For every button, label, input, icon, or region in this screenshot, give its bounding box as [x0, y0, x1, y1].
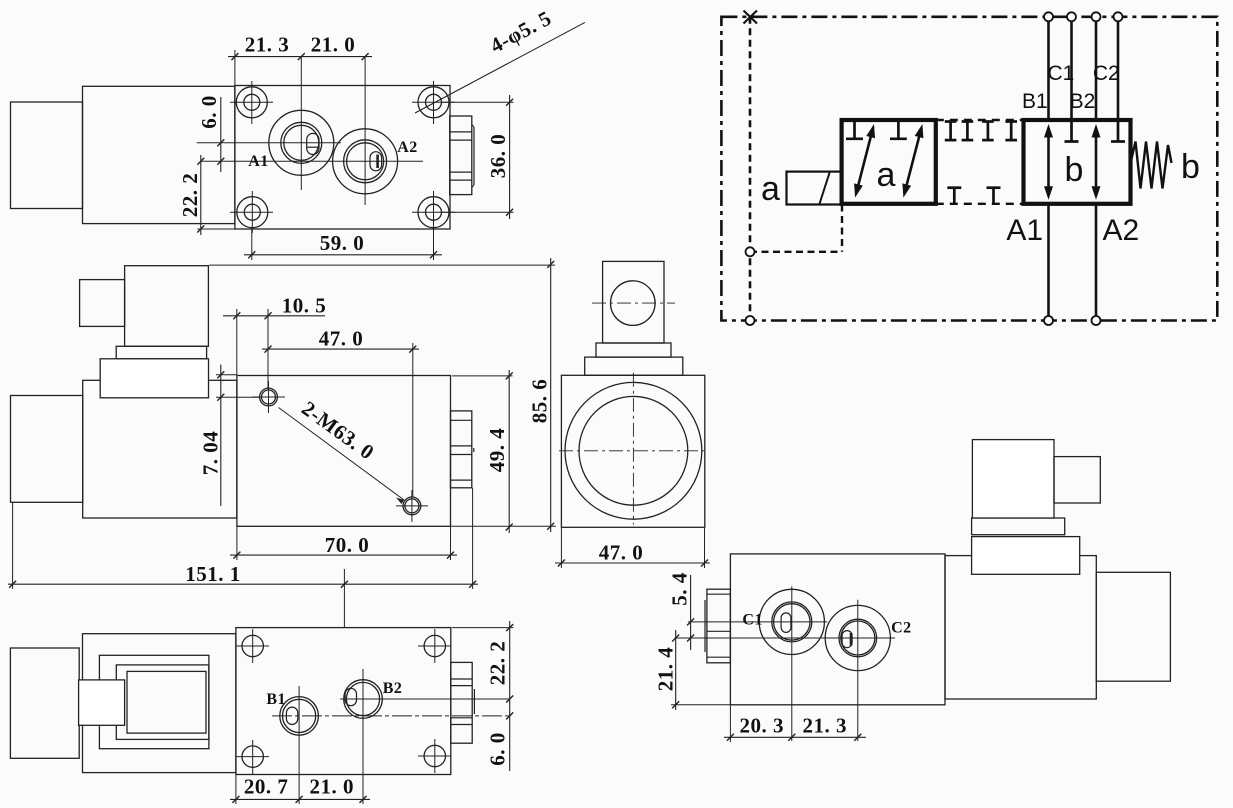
svg-text:B2: B2: [1070, 90, 1096, 113]
VIEW 1: hex plug on right side: [450, 116, 472, 195]
VIEW 1: dimension 21.3 / 21.0 top: [228, 56, 372, 58]
svg-text:59. 0: 59. 0: [320, 231, 365, 255]
svg-text:B1: B1: [266, 691, 286, 708]
SCHEMATIC: transition I marks top: [949, 122, 952, 141]
VIEW 4: connector nest rect outer: [99, 655, 208, 748]
VIEW 5: port C2: [825, 605, 890, 670]
svg-text:70. 0: 70. 0: [325, 533, 370, 557]
svg-text:151. 1: 151. 1: [185, 562, 241, 586]
SCHEMATIC: pilot dashed line vertical: [749, 17, 752, 321]
VIEW 3: coil inner circle: [579, 396, 688, 505]
SCHEMATIC: valve position box a: [842, 120, 936, 204]
SCHEMATIC: port line B1: [1047, 17, 1050, 120]
SCHEMATIC: blocked port T top-1 in box a: [853, 120, 856, 139]
SCHEMATIC: transition section dashed top: [936, 119, 1024, 121]
SCHEMATIC: crossed arrow 2 in box a: [906, 134, 920, 188]
VIEW 1: leader 4-phi5.5: [415, 22, 585, 113]
VIEW 3: dimension 85.6: [550, 258, 552, 532]
VIEW 4: connector small box: [79, 680, 125, 725]
svg-text:A2: A2: [397, 139, 418, 156]
VIEW 2: mounting hole upper-left: [260, 388, 278, 406]
VIEW 4: port B2: [344, 680, 383, 719]
svg-text:21. 4: 21. 4: [654, 647, 678, 692]
VIEW 3: connector step: [596, 343, 671, 357]
SCHEMATIC: pilot branch dashed to solenoid: [841, 205, 843, 252]
SCHEMATIC: node circle pilot bottom: [746, 316, 755, 325]
SCHEMATIC: blocked C1 T in box b: [1070, 120, 1073, 142]
svg-text:47. 0: 47. 0: [599, 541, 644, 565]
VIEW 1: mounting hole top-right: [418, 87, 449, 118]
SCHEMATIC: straight arrow B1-A1 in box b: [1047, 134, 1050, 190]
VIEW 2: dimension 70.0: [230, 554, 457, 556]
SCHEMATIC: port line A2: [1095, 204, 1098, 321]
svg-text:21. 3: 21. 3: [245, 33, 290, 57]
SCHEMATIC: spring right: [1131, 142, 1172, 189]
VIEW 4: mounting hole top-left: [242, 635, 263, 656]
svg-text:21. 3: 21. 3: [803, 714, 848, 738]
svg-text:B1: B1: [1022, 90, 1048, 113]
SCHEMATIC: solenoid actuator box a: [787, 172, 842, 205]
VIEW 1: dimension 59.0 bottom: [244, 254, 442, 256]
VIEW 2: mounting hole lower-right: [403, 497, 421, 515]
VIEW 2: hex plug right side: [451, 411, 472, 488]
VIEW 2: step plate 1: [116, 346, 206, 359]
VIEW 1: solenoid body: [83, 86, 235, 223]
VIEW 1: valve body block: [235, 86, 450, 230]
svg-text:21. 0: 21. 0: [309, 775, 354, 799]
SCHEMATIC: valve position box b: [1024, 120, 1131, 204]
VIEW 1: dimension 36.0 right: [509, 95, 511, 219]
svg-text:49. 4: 49. 4: [485, 428, 509, 473]
svg-text:6. 0: 6. 0: [486, 732, 510, 766]
VIEW 3: end view square: [561, 375, 704, 527]
VIEW 5: valve body block: [730, 554, 945, 705]
VIEW 5: port C1: [759, 589, 824, 654]
VIEW 2: connector body: [125, 266, 209, 347]
svg-text:A1: A1: [248, 153, 269, 170]
VIEW 1: port A1: [269, 110, 334, 175]
svg-text:A2: A2: [1103, 214, 1140, 247]
VIEW 4: mounting hole top-right: [424, 635, 445, 656]
VIEW 5: dimension 21.4: [675, 630, 677, 710]
VIEW 3: connector plate: [585, 357, 683, 375]
VIEW 5: step plate 2: [972, 537, 1080, 575]
VIEW 2: dimension 10.5: [223, 315, 325, 317]
VIEW 3: coil outer circle: [565, 382, 702, 519]
svg-text:36. 0: 36. 0: [486, 134, 510, 179]
VIEW 5: dimension 20.3 / 21.3: [724, 736, 866, 738]
SCHEMATIC: port line A1: [1047, 204, 1050, 321]
svg-text:C1: C1: [1047, 62, 1074, 85]
svg-text:A1: A1: [1006, 214, 1043, 247]
VIEW 2: valve body front: [237, 376, 451, 527]
SCHEMATIC: port circles bottom border: [1044, 316, 1053, 325]
VIEW 3: center lines: [559, 450, 709, 452]
VIEW 4: end cap bottom view: [10, 648, 79, 758]
VIEW 5: connector body: [972, 440, 1054, 518]
VIEW 3: dimension 49.4: [508, 370, 510, 533]
svg-text:6. 0: 6. 0: [197, 95, 221, 129]
VIEW 2: solenoid body front: [83, 380, 237, 518]
SCHEMATIC: port line C1: [1070, 17, 1073, 120]
SCHEMATIC: node circle on pilot line: [746, 247, 755, 256]
VIEW 1: mounting hole bottom-right: [418, 197, 449, 228]
VIEW 5: end cap right: [1096, 572, 1170, 681]
svg-text:85. 6: 85. 6: [528, 379, 552, 424]
VIEW 3: dimension 47.0 bottom: [555, 562, 710, 564]
VIEW 4: mounting hole bottom-right: [424, 745, 445, 766]
svg-text:21. 0: 21. 0: [311, 33, 356, 57]
VIEW 1: valve top view - solenoid end cap: [11, 102, 83, 209]
VIEW 4: dimension 20.7 / 21.0 bottom: [230, 798, 370, 800]
VIEW 4: solenoid body bottom view: [83, 634, 236, 773]
VIEW 3: connector box on top: [603, 261, 664, 343]
VIEW 4: mounting hole bottom-left: [242, 746, 263, 767]
SCHEMATIC: port circles top border: [1044, 12, 1053, 21]
svg-text:a: a: [877, 156, 896, 194]
VIEW 1: dimension 6.0 left: [220, 97, 222, 172]
svg-text:C1: C1: [742, 612, 763, 629]
svg-text:47. 0: 47. 0: [319, 327, 364, 351]
svg-text:22. 2: 22. 2: [178, 173, 202, 218]
VIEW 5: step plate 1: [972, 518, 1065, 535]
SCHEMATIC: blocked C2 T in box b: [1117, 120, 1120, 142]
VIEW 5: solenoid body right: [945, 556, 1096, 699]
SCHEMATIC: X mark at pilot top: [744, 11, 758, 24]
SCHEMATIC: port line C2: [1117, 17, 1120, 120]
svg-text:20. 3: 20. 3: [740, 714, 785, 738]
VIEW 1: dimension 22.2 left: [200, 155, 202, 235]
VIEW 5: connector plug small box: [1054, 457, 1100, 503]
VIEW 1: mounting hole top-left: [236, 87, 267, 118]
VIEW 4: connector nest rect middle: [116, 665, 209, 740]
VIEW 2: dimension 47.0: [262, 348, 419, 350]
VIEW 5: hex plug left side: [707, 589, 731, 663]
SCHEMATIC: straight arrow B2-A2 in box b: [1095, 134, 1098, 190]
svg-text:b: b: [1065, 151, 1084, 189]
VIEW 3: connector circle: [611, 281, 656, 326]
SCHEMATIC: transition T marks bottom: [953, 188, 956, 204]
svg-text:a: a: [761, 170, 780, 208]
SCHEMATIC: blocked port T top-2 in box a: [897, 120, 900, 139]
VIEW 2: step plate 2: [100, 359, 208, 398]
svg-text:C2: C2: [891, 620, 912, 637]
SCHEMATIC: enclosure dash-dot border: [721, 17, 1217, 321]
VIEW 4: connector nest rect inner: [127, 671, 206, 733]
VIEW 2: leader 2-M63.0: [279, 408, 405, 501]
SCHEMATIC: crossed arrow 1 in box a: [858, 134, 872, 188]
VIEW 4: port B1: [280, 697, 319, 736]
VIEW 5: dimension 5.4: [690, 575, 692, 650]
svg-text:22. 2: 22. 2: [486, 641, 510, 686]
VIEW 1: port A2: [333, 129, 398, 194]
VIEW 2: center link line to bottom view: [343, 569, 345, 628]
VIEW 2: dimension 151.1: [8, 583, 478, 585]
VIEW 1: mounting hole bottom-left: [237, 197, 268, 228]
VIEW 2: connector plug small box: [80, 280, 125, 327]
svg-text:7. 04: 7. 04: [199, 431, 223, 476]
svg-text:b: b: [1181, 148, 1200, 186]
VIEW 2: dimension 7.04: [220, 365, 222, 507]
VIEW 4: hex plug right side: [451, 662, 472, 743]
SCHEMATIC: transition section dashed bottom: [936, 203, 1024, 205]
svg-text:C2: C2: [1093, 62, 1120, 85]
VIEW 4: dimension 22.2 and 6.0 right: [509, 621, 511, 771]
svg-text:20. 7: 20. 7: [244, 775, 289, 799]
svg-text:10. 5: 10. 5: [282, 294, 327, 318]
VIEW 2: end cap front: [11, 396, 83, 503]
svg-text:5. 4: 5. 4: [668, 572, 692, 606]
svg-text:B2: B2: [383, 680, 403, 697]
SCHEMATIC: port line B2: [1095, 17, 1098, 120]
VIEW 4: valve body bottom view: [236, 628, 451, 775]
